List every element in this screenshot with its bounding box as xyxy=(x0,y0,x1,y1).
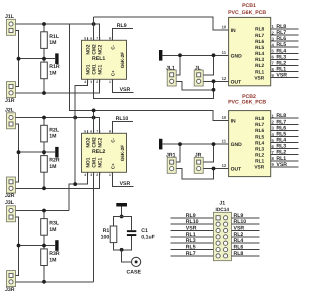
svg-text:RL9: RL9 xyxy=(186,213,196,219)
wire to C1 top xyxy=(122,217,132,231)
svg-text:RL7: RL7 xyxy=(276,119,286,125)
svg-text:VSR: VSR xyxy=(276,162,287,168)
wire R1L-R1R middle leads xyxy=(43,48,45,62)
svg-text:RL9: RL9 xyxy=(234,213,244,219)
wire C1 bottom xyxy=(122,236,132,250)
svg-text:10: 10 xyxy=(222,25,227,30)
wire JR circle pin / OUT2 to PCB2 pin12 xyxy=(204,168,229,170)
svg-text:RL8: RL8 xyxy=(255,27,264,33)
wire GND1 to PCB1 pin11 xyxy=(162,54,228,56)
capacitor C1 0,1uF xyxy=(127,228,155,240)
svg-text:J3L: J3L xyxy=(5,200,15,206)
svg-text:2: 2 xyxy=(96,80,98,84)
wire J2L/J2R square-pin bus xyxy=(16,124,19,182)
net stub VSR (J1 right row 3) xyxy=(232,226,260,232)
svg-text:6: 6 xyxy=(90,36,92,40)
svg-text:RL4: RL4 xyxy=(255,51,264,57)
svg-text:100: 100 xyxy=(101,234,110,240)
net stub RL9 (J1 left row 1) xyxy=(171,213,214,219)
svg-text:R2R: R2R xyxy=(49,158,60,164)
wire REL1 CM1 to OUT1 xyxy=(94,79,214,98)
svg-text:CM2: CM2 xyxy=(92,137,98,148)
wire R2R bottom lead xyxy=(43,172,45,188)
net stub RL7 pin 2 of PCB1 xyxy=(271,30,299,36)
wire R3R bottom lead xyxy=(43,266,45,282)
svg-text:7: 7 xyxy=(96,129,98,133)
net stub RL5 (J1 left row 6) xyxy=(171,245,214,251)
junction JR on GND2 xyxy=(212,142,216,146)
wire IN1 net: REL1 CM2 to PCB1 pin10 xyxy=(94,17,229,30)
svg-text:RL4: RL4 xyxy=(255,140,264,146)
net stub RL8 pin 1 of PCB1 xyxy=(271,24,299,30)
svg-text:11: 11 xyxy=(222,139,227,144)
connector J1R xyxy=(7,82,16,98)
svg-text:RL1: RL1 xyxy=(276,156,286,162)
svg-text:RL1: RL1 xyxy=(255,159,264,165)
svg-text:8: 8 xyxy=(109,129,111,133)
net stub RL8 pin 1 of PCB2 xyxy=(271,113,299,119)
svg-text:JR: JR xyxy=(195,153,202,159)
svg-text:1M: 1M xyxy=(49,164,56,170)
svg-text:RL5: RL5 xyxy=(276,42,286,48)
svg-text:RL4: RL4 xyxy=(276,138,286,144)
connector JL1 xyxy=(167,70,176,86)
svg-text:CM1: CM1 xyxy=(92,157,98,168)
wire JR1 circle pin U-route to OUT2 xyxy=(177,169,214,180)
svg-text:J3R: J3R xyxy=(5,287,15,293)
net stub RL2 pin 7 of PCB2 xyxy=(271,150,299,156)
svg-text:RL5: RL5 xyxy=(255,45,264,51)
resistor R2L 1M xyxy=(41,125,60,142)
svg-text:RL5: RL5 xyxy=(276,132,286,138)
svg-text:C-: C- xyxy=(111,44,116,49)
svg-text:NC1: NC1 xyxy=(98,65,104,75)
junction JL1 on GND1 xyxy=(178,53,182,57)
svg-text:3: 3 xyxy=(90,173,92,177)
wire JL1 circle pin U-route to OUT1 xyxy=(177,81,214,90)
svg-text:J1: J1 xyxy=(219,200,225,206)
svg-text:RL4: RL4 xyxy=(234,238,244,244)
svg-text:4: 4 xyxy=(84,80,86,84)
wire J3L sensor line xyxy=(16,210,70,212)
svg-text:VSR: VSR xyxy=(120,87,131,93)
REL1 pin labels xyxy=(86,44,125,76)
svg-text:5: 5 xyxy=(84,36,86,40)
net stub RL6 pin 3 of PCB2 xyxy=(271,125,299,131)
net stub RL9 (J1 right row 1) xyxy=(232,213,260,219)
connector J1 IDC14 xyxy=(213,200,231,260)
net stub RL7 (J1 left row 7) xyxy=(171,251,214,257)
svg-text:G6K-2F: G6K-2F xyxy=(120,145,125,162)
svg-text:1M: 1M xyxy=(49,257,56,263)
wire J2R sensor line to REL2 NC1 xyxy=(16,173,100,189)
wire R2L-R2R middle leads xyxy=(43,142,45,156)
svg-text:4: 4 xyxy=(84,173,86,177)
chassis plate electrode GND2 xyxy=(159,139,162,150)
svg-text:RL7: RL7 xyxy=(276,30,286,36)
junction R2L top / J2L line xyxy=(42,116,46,120)
junction U-route OUT1 xyxy=(212,88,216,92)
svg-text:OUT: OUT xyxy=(231,167,242,173)
junction J1L line / REL1 CM2 xyxy=(92,22,96,26)
junction R1R bottom / J1R line xyxy=(42,91,46,95)
svg-text:RL6: RL6 xyxy=(276,125,286,131)
wire JL square pin to GND1 xyxy=(204,55,214,75)
net stub RL5 pin 4 of PCB1 xyxy=(271,42,299,48)
svg-text:1M: 1M xyxy=(49,40,56,46)
svg-text:GND: GND xyxy=(231,142,243,148)
svg-text:R3L: R3L xyxy=(49,221,60,227)
svg-text:C+: C+ xyxy=(111,70,116,76)
svg-text:RL6: RL6 xyxy=(255,39,264,45)
connector J3L xyxy=(7,206,16,222)
svg-text:VSR: VSR xyxy=(254,75,264,81)
svg-text:RL2: RL2 xyxy=(276,150,286,156)
junction RC top xyxy=(120,215,124,219)
svg-text:1M: 1M xyxy=(49,227,56,233)
svg-text:5: 5 xyxy=(84,129,86,133)
svg-text:JL: JL xyxy=(195,65,202,71)
wire REL2 NO1 chain to J3L line xyxy=(69,173,87,211)
svg-text:RL8: RL8 xyxy=(234,251,244,257)
svg-text:11: 11 xyxy=(222,50,227,55)
junction JR1 on GND2 xyxy=(178,142,182,146)
wire divider mid to touch plate xyxy=(19,58,56,60)
junction J2L line / REL2 CM2 xyxy=(92,116,96,120)
terminal CASE xyxy=(127,257,142,275)
svg-text:NC2: NC2 xyxy=(98,138,104,148)
wire R2L top lead xyxy=(43,118,45,126)
svg-text:RL6: RL6 xyxy=(276,36,286,42)
svg-text:VSR: VSR xyxy=(234,226,245,232)
svg-text:RL3: RL3 xyxy=(255,146,264,152)
REL2 pin numbers xyxy=(84,129,111,177)
junction bus / divider mid xyxy=(17,57,21,61)
svg-text:1M: 1M xyxy=(49,134,56,140)
chassis plate electrode (case) xyxy=(116,203,127,207)
wire REL1 NC1 stub down xyxy=(99,79,101,93)
junction J2L line / NO chain xyxy=(73,116,77,120)
svg-text:PCB1: PCB1 xyxy=(242,3,256,9)
svg-text:RL7: RL7 xyxy=(255,33,264,39)
junction bus3 / divider mid xyxy=(17,244,21,248)
relay REL2 G6K-2F xyxy=(82,130,127,175)
svg-text:RL1: RL1 xyxy=(255,69,264,75)
wire GND2 to PCB2 pin11 xyxy=(162,143,228,145)
wire J2L sensor line to REL2 NC2 xyxy=(16,118,100,134)
junction RC bottom xyxy=(120,248,124,252)
svg-text:JR1: JR1 xyxy=(166,153,176,159)
svg-text:NC2: NC2 xyxy=(98,45,104,55)
svg-text:RL2: RL2 xyxy=(255,153,264,159)
svg-text:OUT: OUT xyxy=(231,79,242,85)
svg-text:RL6: RL6 xyxy=(234,245,244,251)
wire to CASE terminal xyxy=(122,250,132,262)
connector JR1 xyxy=(167,157,176,173)
svg-text:R1: R1 xyxy=(103,228,110,234)
svg-text:J1R: J1R xyxy=(5,98,15,104)
svg-text:0,1uF: 0,1uF xyxy=(141,234,155,240)
wire divider mid 3 to touch plate xyxy=(19,245,56,247)
svg-text:RL2: RL2 xyxy=(276,60,286,66)
svg-text:RL8: RL8 xyxy=(255,116,264,122)
svg-text:C+: C+ xyxy=(111,163,116,169)
touch plate electrode section 1 xyxy=(55,53,58,64)
connector J2R xyxy=(7,177,16,193)
svg-text:REL1: REL1 xyxy=(92,56,105,62)
resistor R1R 1M xyxy=(41,62,60,79)
connector J2L xyxy=(7,113,16,129)
svg-text:NO2: NO2 xyxy=(86,137,92,147)
wire R1R bottom lead xyxy=(43,79,45,93)
svg-text:RL9: RL9 xyxy=(117,23,127,29)
wire J3R sensor line xyxy=(16,281,94,283)
module PCB1 PVC_G6K_PCB xyxy=(228,3,271,86)
svg-text:NO1: NO1 xyxy=(86,64,92,74)
svg-text:IDC14: IDC14 xyxy=(215,207,229,213)
svg-text:C-: C- xyxy=(111,137,116,142)
touch plate electrode section 2 xyxy=(55,147,58,158)
svg-text:R1L: R1L xyxy=(49,34,60,40)
wire J1L sensor line to REL1 NC2 xyxy=(16,24,100,40)
chassis plate electrode GND1 xyxy=(159,50,162,61)
net stub RL1 pin 8 of PCB1 xyxy=(271,67,299,73)
wire R3L-R3R middle leads xyxy=(43,235,45,249)
svg-text:RL10: RL10 xyxy=(116,116,129,122)
net stub RL10 (J1 right row 2) xyxy=(232,219,260,225)
svg-text:REL2: REL2 xyxy=(92,149,105,155)
svg-text:RL2: RL2 xyxy=(234,232,244,238)
svg-text:10: 10 xyxy=(222,115,227,120)
net stub RL6 (J1 right row 6) xyxy=(232,245,260,251)
svg-text:RL1: RL1 xyxy=(276,67,286,73)
svg-text:CM1: CM1 xyxy=(92,64,98,75)
svg-text:6: 6 xyxy=(90,129,92,133)
wire R3L top lead xyxy=(43,211,45,219)
wire REL1 CM2 up xyxy=(93,17,95,40)
net stub VSR pin 9 of PCB2 xyxy=(271,162,299,168)
svg-text:R3R: R3R xyxy=(49,251,60,257)
svg-text:1: 1 xyxy=(109,173,111,177)
svg-text:RL3: RL3 xyxy=(255,57,264,63)
svg-text:J2R: J2R xyxy=(5,193,15,199)
svg-text:12: 12 xyxy=(222,76,227,81)
wire J3L/J3R square-pin bus xyxy=(16,217,19,275)
wire JR square pin to GND2 xyxy=(204,144,214,162)
junction R2L-R2R mid xyxy=(42,150,46,154)
net stub RL4 (J1 right row 5) xyxy=(232,238,260,244)
net stub RL8 (J1 right row 7) xyxy=(232,251,260,257)
net stub RL6 pin 3 of PCB1 xyxy=(271,36,299,42)
wire IN2 net: J1L chain to PCB2 pin10 xyxy=(69,24,228,121)
junction OUT1 xyxy=(212,79,216,83)
junction R1L top / J1L line xyxy=(42,22,46,26)
net stub RL10 (J1 left row 2) xyxy=(171,219,214,225)
net label RL10 xyxy=(112,122,133,134)
net label VSR (REL1 coil +) xyxy=(112,79,133,92)
junction bus2 / divider mid xyxy=(17,150,21,154)
svg-text:PVC_G6K_PCB: PVC_G6K_PCB xyxy=(228,99,266,105)
connector JL xyxy=(194,70,203,86)
svg-text:RL5: RL5 xyxy=(186,245,196,251)
net stub VSR pin 9 of PCB1 xyxy=(271,73,299,79)
svg-text:3: 3 xyxy=(90,80,92,84)
junction R3L top / J3L line xyxy=(42,209,46,213)
svg-text:R2L: R2L xyxy=(49,127,60,133)
svg-text:RL8: RL8 xyxy=(276,24,286,30)
wire to R1 top xyxy=(114,217,122,227)
wire R1 bottom xyxy=(114,243,122,250)
svg-text:NO2: NO2 xyxy=(86,44,92,54)
svg-text:IN: IN xyxy=(231,28,236,34)
wire REL1 NO1 chain down xyxy=(75,79,87,184)
net stub RL1 pin 8 of PCB2 xyxy=(271,156,299,162)
svg-text:CM2: CM2 xyxy=(92,44,98,55)
svg-text:J2L: J2L xyxy=(5,107,15,113)
wire J1R sensor line to REL1 NC1 xyxy=(16,79,100,93)
svg-text:G6K-2F: G6K-2F xyxy=(120,52,125,69)
wire JL1 square pin to GND1 xyxy=(177,55,180,75)
resistor R3R 1M xyxy=(41,249,60,266)
svg-text:J1L: J1L xyxy=(5,14,15,20)
resistor R3L 1M xyxy=(41,219,60,236)
svg-text:8: 8 xyxy=(109,36,111,40)
wire REL2 CM1 down to J3R line xyxy=(93,173,95,282)
junction R2R bottom / J2R line xyxy=(42,186,46,190)
REL1 pin numbers xyxy=(84,36,111,84)
svg-text:RL8: RL8 xyxy=(276,113,286,119)
net stub RL4 pin 5 of PCB1 xyxy=(271,48,299,54)
svg-text:1: 1 xyxy=(109,80,111,84)
svg-text:12: 12 xyxy=(222,163,227,168)
svg-text:GND: GND xyxy=(231,53,243,59)
svg-text:RL2: RL2 xyxy=(255,63,264,69)
svg-text:NO1: NO1 xyxy=(86,157,92,167)
svg-text:1M: 1M xyxy=(49,71,56,77)
svg-text:VSR: VSR xyxy=(254,165,264,171)
module PCB2 PVC_G6K_PCB xyxy=(228,94,271,177)
wire plate to RC junction xyxy=(121,207,123,217)
junction JL on GND1 xyxy=(212,53,216,57)
resistor R2R 1M xyxy=(41,156,60,173)
net stub VSR (J1 left row 3) xyxy=(171,226,214,232)
svg-text:RL10: RL10 xyxy=(234,219,247,225)
svg-text:RL6: RL6 xyxy=(255,128,264,134)
svg-text:RL3: RL3 xyxy=(276,54,286,60)
svg-text:RL5: RL5 xyxy=(255,134,264,140)
net label RL9 xyxy=(112,29,133,41)
net stub RL4 pin 5 of PCB2 xyxy=(271,138,299,144)
net stub RL2 pin 7 of PCB1 xyxy=(271,60,299,66)
net stub RL3 pin 6 of PCB1 xyxy=(271,54,299,60)
net stub RL5 pin 4 of PCB2 xyxy=(271,132,299,138)
svg-text:RL10: RL10 xyxy=(186,219,199,225)
svg-text:VSR: VSR xyxy=(120,181,131,187)
svg-text:CASE: CASE xyxy=(127,270,142,276)
wire REL2 CM2 up xyxy=(93,110,95,133)
svg-text:C1: C1 xyxy=(141,228,148,234)
wire JL circle pin / OUT1 to PCB1 pin12 xyxy=(204,80,229,82)
junction OUT2 xyxy=(212,167,216,171)
resistor R1L 1M xyxy=(41,32,60,49)
net stub RL2 (J1 right row 4) xyxy=(232,232,260,238)
svg-text:VSR: VSR xyxy=(186,226,197,232)
svg-text:RL1: RL1 xyxy=(186,232,196,238)
svg-text:RL7: RL7 xyxy=(255,122,264,128)
net label VSR (REL2 coil +) xyxy=(112,173,133,187)
svg-text:RL3: RL3 xyxy=(186,238,196,244)
svg-text:JL1: JL1 xyxy=(166,65,175,71)
svg-text:R1R: R1R xyxy=(49,64,60,70)
connector J3R xyxy=(7,271,16,287)
net stub RL7 pin 2 of PCB2 xyxy=(271,119,299,125)
wire R1L top lead xyxy=(43,24,45,32)
svg-text:VSR: VSR xyxy=(276,73,287,79)
svg-text:IN: IN xyxy=(231,119,236,125)
svg-text:2: 2 xyxy=(96,173,98,177)
resistor R1 100 xyxy=(101,226,117,243)
junction R1L-R1R mid xyxy=(42,57,46,61)
net stub RL3 (J1 left row 5) xyxy=(171,238,214,244)
net stub RL1 (J1 left row 4) xyxy=(171,232,214,238)
svg-text:NC1: NC1 xyxy=(98,158,104,168)
junction REL2 CM2 / IN2 wire xyxy=(92,109,96,113)
junction NO chain 1 on NO chain 2 xyxy=(73,182,77,186)
svg-text:7: 7 xyxy=(96,36,98,40)
touch plate electrode section 3 xyxy=(55,240,58,251)
REL2 pin labels xyxy=(86,137,125,169)
svg-text:RL7: RL7 xyxy=(186,251,196,257)
junction R3L-R3R mid xyxy=(42,244,46,248)
connector JR xyxy=(194,157,203,173)
connector J1L xyxy=(7,19,16,35)
svg-text:PVC_G6K_PCB: PVC_G6K_PCB xyxy=(228,10,266,16)
junction R3R bottom / J3R line xyxy=(42,280,46,284)
wire J1L/J1R square-pin bus xyxy=(16,31,19,87)
relay REL1 G6K-2F xyxy=(82,37,127,82)
wire divider mid 2 to touch plate xyxy=(19,151,56,153)
net stub RL3 pin 6 of PCB2 xyxy=(271,144,299,150)
wire JR1 square pin to GND2 xyxy=(177,144,180,162)
